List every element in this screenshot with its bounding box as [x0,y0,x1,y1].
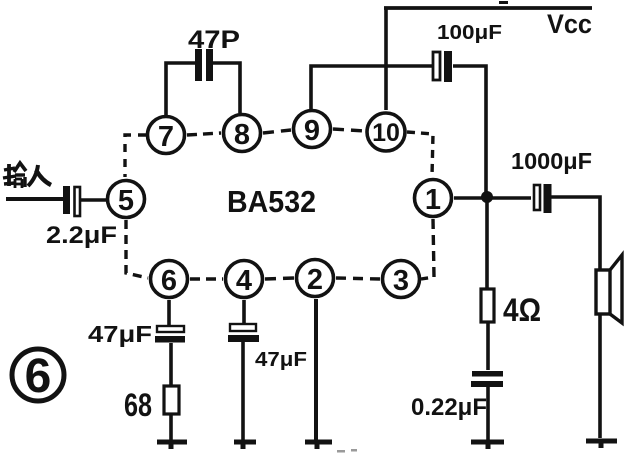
capacitor C3 100uF (bootstrap) [433,51,452,82]
IC pin 8 [224,115,261,152]
wire output junction down to R1 [485,197,489,289]
svg-text:0.22μF: 0.22μF [411,394,487,421]
svg-text:68: 68 [124,387,152,423]
capacitor C4 1000uF (output coupling) [534,184,552,213]
IC pin 9 [294,111,331,148]
scan smudges bottom [337,449,357,453]
svg-text:10: 10 [372,119,400,147]
svg-text:8: 8 [234,119,250,151]
svg-text:4: 4 [236,265,252,297]
IC pin 1 [415,180,452,217]
node Vcc: top supply rail [384,6,592,10]
IC pin 6 [151,261,188,298]
IC pin 2 [297,260,334,297]
wire pin2 down to ground [314,299,318,441]
capacitor C7 47uF (pin4 decoupling, electrolytic) [228,324,259,342]
svg-text:9: 9 [304,115,320,147]
IC pin 7 [148,117,185,154]
svg-text:47μF: 47μF [88,321,152,347]
capacitor C2 47P [195,49,213,81]
ground (speaker) [586,441,617,448]
speaker LS1 [596,255,622,323]
ground (R2) [157,442,187,449]
resistor R1 4ohm [481,289,494,322]
wire C5 to ground [486,387,490,440]
IC outline dashed segment: pin8 to pin9 [263,130,291,133]
IC pin 4 [226,261,263,298]
ground (C7) [234,442,256,449]
svg-text:47μF: 47μF [255,349,307,371]
wire pin4 down to C7 [242,300,246,324]
wire C7 to ground [241,342,245,441]
wire pin7 up and over to C2 [166,63,195,115]
svg-text:3: 3 [393,265,409,297]
ground (zobel) [471,442,504,449]
resistor R2 68 [164,386,179,414]
wire R1 to C5 [486,322,490,370]
svg-text:6: 6 [25,350,52,403]
svg-text:2: 2 [307,264,323,296]
IC pin 10 [367,113,405,151]
IC outline dashed segment: pin4 to pin2 [265,278,294,279]
wire pin10 up to Vcc rail [384,8,388,110]
IC outline dashed segment: pin6 to pin4 [190,277,223,280]
ground (pin2) [305,442,332,449]
figure number circled 6 [12,349,64,403]
label 输入 (input) hand-drawn glyphs [3,163,51,188]
wire pin9 up and over to C3 [311,66,432,109]
svg-text:2.2μF: 2.2μF [46,222,117,249]
wire C3 to output node [453,66,486,197]
wire R2 to ground [169,414,173,441]
IC pin 3 [383,261,420,298]
capacitor C1 2.2uF (input coupling) [63,186,80,216]
IC outline dashed segment: pin7 to pin5 (left top corner) [125,135,146,177]
svg-text:100μF: 100μF [437,22,502,44]
IC outline dashed segment: pin1 to pin3 (right bottom corner) [421,219,434,279]
wire C4 to speaker [548,197,600,270]
IC outline dashed segment: pin10 to pin1 (right top corner) [407,132,433,176]
IC outline dashed segment: pin5 to pin6 (left bottom corner) [126,220,148,278]
wire C1 to pin5 [80,198,106,202]
svg-text:47P: 47P [188,26,240,54]
IC pin 5 [108,181,145,218]
wire C6 to R2 [169,343,173,386]
capacitor C5 0.22uF (zobel) [471,371,503,387]
svg-text:5: 5 [118,185,134,217]
junction node OUT [481,191,493,203]
svg-text:1: 1 [425,184,441,216]
IC outline dashed segment: pin9 to pin10 [333,129,365,131]
svg-text:7: 7 [158,121,174,153]
IC outline dashed segment: pin2 to pin3 [336,278,380,279]
scan artifact tick above rail [499,1,508,4]
IC outline dashed segment: pin7 to pin8 [187,133,221,135]
node IN: input terminal wire [6,197,63,201]
wire pin6 down to C6 [167,300,171,326]
wire C2 down to pin8 [213,63,240,113]
svg-text:1000μF: 1000μF [511,148,592,174]
capacitor C6 47uF (pin6 decoupling, electrolytic) [155,326,185,343]
svg-text:6: 6 [161,265,177,297]
wire speaker to ground [598,314,602,438]
svg-text:Vcc: Vcc [547,9,592,39]
wire pin1 to output junction [454,196,531,200]
svg-text:BA532: BA532 [227,184,316,219]
svg-text:4Ω: 4Ω [503,292,541,328]
